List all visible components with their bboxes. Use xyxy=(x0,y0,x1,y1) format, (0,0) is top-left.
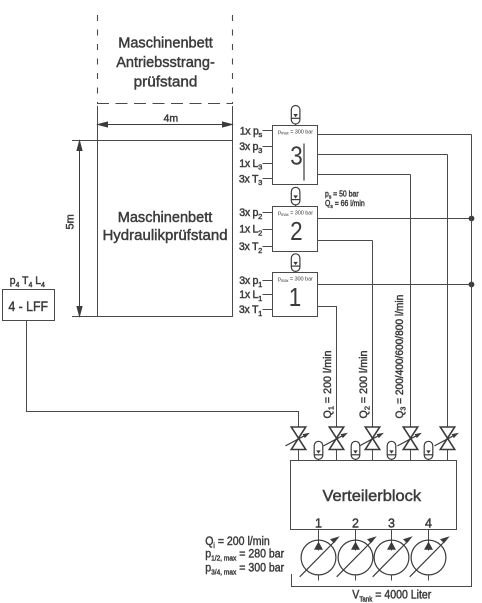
label Maschinenbett Hydraulikprüfstand xyxy=(102,210,227,244)
label Maschinenbett Antriebsstrangprüfstand xyxy=(116,35,215,91)
throttle valve V4 xyxy=(398,427,422,461)
svg-text:VTank = 4000 Liter: VTank = 4000 Liter xyxy=(352,589,431,603)
svg-text:pmax = 300 bar: pmax = 300 bar xyxy=(278,211,313,217)
relief capsule R4 on manifold xyxy=(424,441,433,460)
svg-text:p3/4, max = 300 bar: p3/4, max = 300 bar xyxy=(205,562,284,577)
dashed machine bed (Antriebsstrangprüfstand) outline xyxy=(97,15,233,104)
svg-text:5m: 5m xyxy=(65,214,77,229)
throttle valve V3 xyxy=(360,427,384,461)
svg-text:3x p3: 3x p3 xyxy=(239,141,262,155)
wires from box 1 right side xyxy=(318,285,472,428)
wire Q3 column xyxy=(372,241,374,428)
svg-text:3x T3: 3x T3 xyxy=(239,173,262,187)
p bus vertical wire to tank xyxy=(471,135,473,570)
box 3 label ticks xyxy=(263,131,273,179)
svg-text:1x L3: 1x L3 xyxy=(239,158,262,172)
box 3 signal labels xyxy=(239,125,263,187)
svg-text:Q3 = 200/400/600/800 l/min: Q3 = 200/400/600/800 l/min xyxy=(395,295,408,419)
pump spec text block xyxy=(205,535,284,576)
dimension line 4m xyxy=(98,122,232,127)
wire from 4-LFF to first valve xyxy=(27,321,299,428)
svg-text:3x T2: 3x T2 xyxy=(239,241,262,255)
supply note ps/Qs xyxy=(325,189,365,210)
box 4-LFF xyxy=(3,290,55,321)
svg-text:p4 T4 L4: p4 T4 L4 xyxy=(10,275,45,289)
pump P4 xyxy=(410,530,450,581)
wires from box 3 right side xyxy=(318,135,472,175)
box 3 xyxy=(273,126,318,185)
wire Q5 column xyxy=(447,155,449,428)
relief valve capsule above box 3 xyxy=(291,106,300,127)
dimension 4m extension lines xyxy=(98,106,233,141)
relief valve capsule above box 1 xyxy=(291,254,300,273)
svg-text:prüfstand: prüfstand xyxy=(134,74,198,91)
svg-text:p1/2, max = 280 bar: p1/2, max = 280 bar xyxy=(205,548,284,563)
svg-text:3x p1: 3x p1 xyxy=(239,275,262,289)
svg-text:pmax = 300 bar: pmax = 300 bar xyxy=(278,277,313,283)
svg-text:Q1 = 200 l/min: Q1 = 200 l/min xyxy=(322,351,336,419)
text cursor artifact after 3 xyxy=(303,144,305,181)
svg-text:Verteilerblock: Verteilerblock xyxy=(323,487,423,505)
relief valve capsule above box 2 xyxy=(291,187,300,206)
wire Q4 column xyxy=(410,175,412,428)
svg-text:pmax = 300 bar: pmax = 300 bar xyxy=(278,129,313,135)
svg-text:1x L2: 1x L2 xyxy=(239,224,262,238)
dimension line 5m xyxy=(77,141,82,316)
pump P1 xyxy=(300,530,340,581)
box 1 xyxy=(273,273,318,317)
svg-text:Maschinenbett: Maschinenbett xyxy=(118,210,213,226)
svg-text:4 - LFF: 4 - LFF xyxy=(8,298,48,314)
svg-text:3: 3 xyxy=(290,142,302,171)
svg-text:Maschinenbett: Maschinenbett xyxy=(118,35,213,51)
svg-text:2: 2 xyxy=(290,218,302,247)
junction node at p-line bus (lower) xyxy=(469,282,475,288)
throttle valve V2 xyxy=(324,427,348,461)
throttle valve V5 xyxy=(435,427,459,461)
dimension 5m extension lines xyxy=(72,141,98,317)
svg-text:2: 2 xyxy=(352,517,359,531)
pump P2 xyxy=(337,530,377,581)
throttle valve V1 xyxy=(286,427,310,461)
svg-text:4m: 4m xyxy=(164,112,179,124)
relief capsule R3 on manifold xyxy=(387,441,396,460)
svg-text:Hydraulikprüfstand: Hydraulikprüfstand xyxy=(102,227,227,244)
svg-text:3: 3 xyxy=(388,517,395,531)
svg-text:3x p2: 3x p2 xyxy=(239,207,262,221)
box 2 label ticks xyxy=(263,213,273,247)
svg-text:1: 1 xyxy=(315,517,322,531)
relief capsule R1 on manifold xyxy=(314,441,323,460)
machine bed box (Hydraulikprüfstand) xyxy=(98,141,233,317)
wires from box 2 right side xyxy=(318,219,472,241)
box 2 signal labels xyxy=(239,207,262,255)
tank outline xyxy=(292,570,472,587)
pump P3 xyxy=(373,530,413,581)
box 1 signal labels xyxy=(239,275,262,318)
svg-text:4: 4 xyxy=(425,517,432,531)
svg-text:1x L1: 1x L1 xyxy=(239,289,262,303)
Verteilerblock manifold xyxy=(291,461,457,530)
relief capsule R2 on manifold xyxy=(351,441,360,460)
svg-text:1x ps: 1x ps xyxy=(240,125,263,139)
junction node at p-line bus (upper) xyxy=(469,216,475,222)
svg-text:1: 1 xyxy=(289,284,301,313)
box 2 xyxy=(273,207,318,252)
svg-text:3x T1: 3x T1 xyxy=(239,304,262,318)
svg-text:Antriebsstrang-: Antriebsstrang- xyxy=(116,55,215,71)
svg-text:Q2 = 200 l/min: Q2 = 200 l/min xyxy=(358,351,372,419)
box 1 label ticks xyxy=(263,281,273,310)
